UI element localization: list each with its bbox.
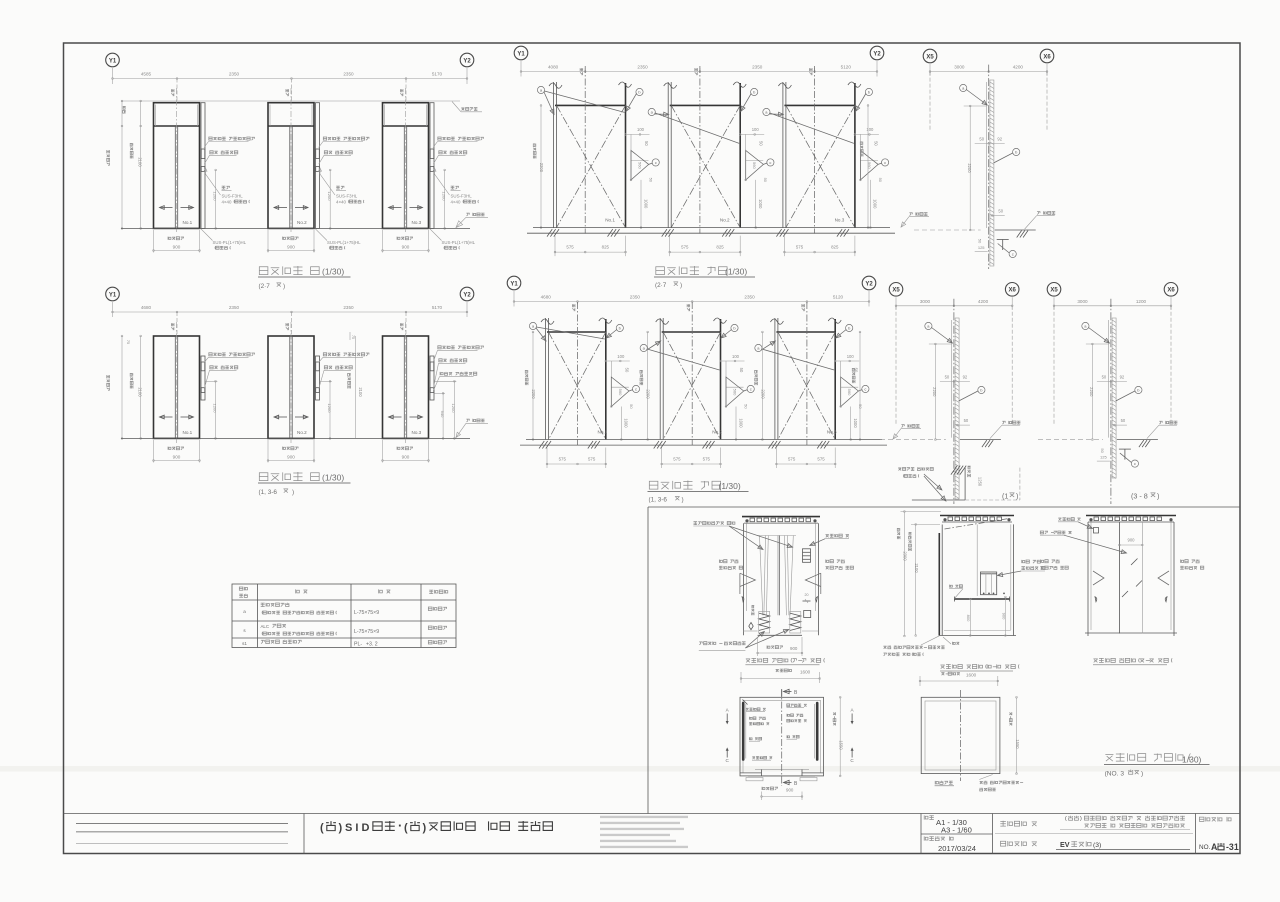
hall door No.2 elevation (1,3-6F) outline [268,336,314,438]
svg-text:2350: 2350 [229,72,240,77]
section 1F leader circle b [978,386,985,393]
cage front door panels (tapered) [760,536,763,616]
door No.1 r2 centerline [176,322,178,444]
hole frame anchor dim stack [855,133,879,135]
svg-text:560: 560 [638,162,643,169]
cage front hook marks [742,597,744,602]
cage plan door opening at bottom [740,772,762,774]
hall door No.1 elevation (1,3-6F) outline [154,336,200,438]
svg-text:No.3: No.3 [412,220,422,225]
svg-text:2200: 2200 [531,389,536,399]
row1 frame No.3 leader circle a [763,108,770,115]
section row1: grid mark X5 [923,49,937,63]
hole frame anchor dim stack [626,133,650,135]
hole frame No.1 rotated head label [580,68,583,75]
hole frame No.3 left angle (double line) [774,318,776,440]
hole frame No.2 left angle (double line) [659,318,661,440]
svg-text:c: c [635,387,637,392]
hall door No.2 elevation (2-7F) outline [268,103,314,229]
cage front springs (toe guards) [759,613,770,630]
svg-text:): ) [1141,771,1143,778]
section 1F left height dim 2200 [934,344,936,440]
row1 holes floor hatches [547,229,552,237]
svg-text:2100: 2100 [358,387,363,397]
svg-text:1000: 1000 [873,199,878,209]
svg-text:575: 575 [681,245,689,250]
hole frame No.3 X-brace diagonals [778,332,835,440]
row2 holes floor hatches [539,441,544,449]
svg-text:900: 900 [173,454,181,459]
svg-text:No.2: No.2 [720,218,730,223]
door No.3 hall button box [430,167,434,172]
svg-text:c: c [769,160,771,165]
row2 holes right floor level note [901,424,919,427]
row1 frame No.1 leader circle a [537,86,544,93]
hole frame No.1 header line [555,104,626,106]
svg-text:c: c [884,160,886,165]
row1 doors right floor note [466,213,484,216]
hole frame No.2 top break hooks [664,83,677,88]
svg-text:Y2: Y2 [865,281,873,287]
svg-text:2200: 2200 [967,163,972,173]
svg-text:900: 900 [790,646,798,651]
svg-text:No.2: No.2 [297,430,307,435]
section 3-8F left height dim 2200 [1091,344,1093,440]
door No.2 button-height dim 1200 [329,170,331,228]
svg-text:2200: 2200 [1089,387,1094,397]
section 1F pit hatch marks [951,466,957,475]
section 1F pit depth label [968,466,971,477]
svg-text:Y2: Y2 [463,292,471,298]
svg-text:1550: 1550 [839,740,844,750]
hole frame No.3 header line [784,104,855,106]
hole frame No.1 rotated head label [572,304,575,311]
grid mark Y2 (row2 doors) [460,287,474,301]
svg-text:50: 50 [964,418,969,423]
hole frame No.3 top break hooks [770,319,783,324]
cage front door header line [757,535,796,537]
row1 doors right top leader note [461,107,477,110]
svg-text:s1: s1 [242,641,247,646]
door No.3 r2 panel split [403,336,405,438]
cage back mirror glass diagonal marks [1131,559,1138,566]
cage back floor line [1085,632,1177,634]
svg-text:1/30): 1/30) [1182,755,1202,765]
door No.1 button-height dim 1200 [215,170,217,228]
hole frame No.1 centerline [577,302,579,446]
row2 holes: grid mark Y1 [507,276,521,290]
svg-text:50: 50 [979,137,984,142]
cage side front wall (dark) [938,533,940,636]
svg-text:50: 50 [873,141,878,146]
section row1 leader circle a [960,84,967,91]
svg-text:(2·7: (2·7 [259,283,271,290]
svg-text:4680: 4680 [141,305,152,310]
svg-text:50: 50 [739,368,744,373]
cage plan top-left corner tick [743,700,748,705]
door No.3 r2 sill dims [382,440,384,463]
svg-text:1550: 1550 [1015,739,1020,749]
cage front title [746,658,825,663]
svg-text:SUS-PL(1+75)HL: SUS-PL(1+75)HL [442,240,476,245]
cage ceiling assembly strip [742,516,820,518]
svg-text:): ) [1016,492,1018,501]
row1 holes left overall dim [540,105,542,227]
svg-text:3000: 3000 [954,65,965,70]
section 1F top dimension line [895,297,897,310]
hole frame anchor triangle symbol [631,150,649,180]
svg-text:560: 560 [867,162,872,169]
svg-text:825: 825 [831,245,839,250]
row1 holes floor line [533,227,890,229]
door No.3 button-height dim 1200 [444,170,446,228]
row2 holes title: hall hole-drilling plan (1/30) [649,481,720,490]
door No.2 hall indicator box [316,149,320,159]
svg-text:+3. 2: +3. 2 [366,641,378,647]
row2 middle-right 2100 dim (door3) [355,336,357,438]
door No.2 rotated head label [286,89,289,96]
svg-text:50: 50 [858,404,863,409]
door No.3 button leader note [439,151,467,154]
svg-text:75: 75 [351,335,355,339]
section 1F leader circle a [925,322,932,329]
svg-text:50: 50 [759,141,764,146]
hole frame No.1 top break hooks [549,83,562,88]
svg-text:2200: 2200 [760,389,765,399]
svg-text:(2·7: (2·7 [655,282,667,289]
section 3-8F floor finish note [1159,421,1177,424]
cage plan right dim 1550 [839,697,841,776]
row1 doors left dimension lines [121,101,123,228]
svg-text:125: 125 [978,245,985,250]
section row1 base anchor T symbol [997,239,1009,241]
svg-text:PL-: PL- [354,641,362,647]
door No.3 indicator leader note [438,137,484,140]
svg-text:Y1: Y1 [109,58,117,64]
door No.2 sill width label 900 [283,237,299,240]
svg-text:1000: 1000 [624,418,629,428]
svg-text:4200: 4200 [978,299,989,304]
door No.3 r2 940 dim [442,393,444,438]
hole frame 1000 vertical dim [869,180,871,228]
svg-text:3000: 3000 [920,299,931,304]
svg-text:575: 575 [796,245,804,250]
svg-text:): ) [292,489,294,496]
door No.2 r2 1200 dim [329,381,331,438]
svg-text:900: 900 [287,244,295,249]
cage plan left wall handrail bar [742,703,745,760]
svg-text:): ) [682,497,684,504]
svg-text:3000: 3000 [1077,299,1088,304]
svg-text:50: 50 [878,178,883,183]
row2 holes: grid mark Y2 [862,276,876,290]
door No.1 r2 arrows [160,416,173,418]
svg-text:50: 50 [744,404,749,409]
section row1 wall centerline [988,65,990,269]
svg-text:(1, 3-6: (1, 3-6 [649,497,668,504]
svg-text:): ) [1157,492,1159,501]
section row1 top dimension line [929,64,931,76]
svg-text:92: 92 [1120,375,1125,380]
cage-section enclosure box [648,507,1240,814]
door No.2 centerline [290,88,292,234]
svg-text:4×40: 4×40 [336,200,346,205]
door No.3 r2 indicator [430,362,434,371]
door No.2 opening arrows [274,207,287,209]
svg-text:): ) [1080,816,1082,822]
section row1 floor line [995,229,1036,231]
svg-text:1200: 1200 [327,192,332,202]
section 3-8F 50/92 dims [1097,381,1127,383]
svg-text:SUS-PL(1+75)HL: SUS-PL(1+75)HL [213,240,247,245]
hole frame 1000 vertical dim [620,407,622,440]
door No.1 sill dimension ticks [153,230,155,253]
title block: project name box [1000,821,1037,826]
svg-text:SUS-PL(1+75)HL: SUS-PL(1+75)HL [327,240,361,245]
cage side rear wall [1013,524,1015,635]
section 1F floor finish note [1002,421,1020,424]
row2 doors floor line [121,437,470,439]
section 1F pit floor line [912,499,965,501]
door No.1 r2 indicator note [209,353,255,356]
svg-text:1600: 1600 [966,673,977,678]
svg-text:4585: 4585 [141,72,152,77]
hole frame No.2 right post [720,319,722,440]
cage ceiling assembly strip [940,515,1014,517]
cage back camera note [1058,517,1080,520]
svg-text:X6: X6 [1009,288,1017,294]
svg-text:SUS-F3HL: SUS-F3HL [336,194,358,199]
svg-text:-31: -31 [1226,842,1239,852]
svg-text:20: 20 [805,593,809,597]
cage back mirror joint lines [1118,522,1120,634]
door No.3 r2 button [430,388,434,393]
hall door No.3 elevation (2-7F) outline [383,103,429,229]
door No.2 sill note SUS-PL [315,228,327,240]
svg-text:No.3: No.3 [827,430,837,435]
svg-text:800: 800 [966,615,971,622]
door No.1 r2 sill dims [153,440,155,463]
svg-text:A3 - 1/60: A3 - 1/60 [941,826,972,835]
door No.1 rotated head label [171,89,174,96]
cage plan B section marker top [781,690,783,698]
svg-text:No.1: No.1 [183,220,193,225]
door No.1 button leader note [210,151,238,154]
hole frame No.2 header line [670,104,741,106]
door No.3 side frame strip [430,103,434,229]
section 3-8F base anchor T symbol [1119,448,1131,450]
svg-text:2350: 2350 [630,295,641,300]
cage ceiling assembly strip [1086,515,1176,517]
svg-text:50: 50 [945,375,950,380]
hole frame No.1 left angle (double line) [553,82,555,228]
svg-text:X5: X5 [892,288,900,294]
door No.2 r2 indicator [316,362,320,371]
svg-text:No.1: No.1 [598,430,608,435]
row1 frame No.2 leader circle a [648,108,655,115]
door No.2 indicator leader note [323,137,369,140]
door No.1 r2 button note [210,366,238,369]
svg-text:1200: 1200 [1136,299,1147,304]
svg-text:): ) [680,282,682,289]
svg-text:125: 125 [1100,455,1107,460]
section 1F floor line [960,439,1001,441]
svg-text:1250: 1250 [977,477,982,487]
svg-text:Y1: Y1 [517,51,525,57]
row2 doors top dimension line [112,302,114,317]
svg-text:(3): (3) [1093,842,1101,849]
section 1F waterproofing note [898,467,933,470]
hole frame No.3 centerline [806,302,808,446]
svg-text:No.3: No.3 [412,430,422,435]
svg-text:c: c [655,160,657,165]
svg-text:No.1: No.1 [183,430,193,435]
section row1 floor hatch [1017,231,1022,238]
door No.3 sill dimension ticks [382,230,384,253]
door No.1 r2 head label [171,323,174,330]
svg-text:560: 560 [752,162,757,169]
door No.1 hall indicator box [201,149,205,159]
hole frame No.1 right post [605,319,607,440]
hole frame No.2 rotated head label [695,68,698,75]
section 3-8F leader circle c at base [1131,460,1138,467]
cage side button label [950,585,963,588]
svg-text:940: 940 [440,411,445,418]
svg-text:): ) [423,822,427,834]
door No.3 r2 arrows [389,416,402,418]
ceiling plan right dim 1550 [1016,697,1018,773]
cage side interior center guide [976,525,978,597]
svg-text:2100: 2100 [138,157,143,167]
hole frame anchor triangle symbol [746,150,764,180]
cage plan inner wall lines [742,700,744,773]
section 1F wall hatched strip [955,318,959,499]
section 3-8F leader circle b [1135,386,1142,393]
cage back side walls [1087,522,1089,636]
door No.2 r2 frame strip (indicator panel) [316,356,320,400]
cage back title [1093,658,1172,663]
hole frame No.2 header line [662,331,721,333]
svg-text:825: 825 [602,245,610,250]
svg-text:(1/30): (1/30) [322,267,344,277]
hole frame No.3 left angle (double line) [782,82,784,228]
cage design big title [1105,753,1190,761]
ceiling plan outline [921,697,1000,773]
hole frame anchor triangle symbol [860,150,878,180]
row2 frame No.3 leader circle a [755,344,762,351]
cage side operating panel box [981,572,997,595]
hole frame No.1 centerline [584,66,586,234]
door No.1 sill note SUS-PL [201,228,213,240]
cage side bottom-left sensor note [883,645,944,648]
hole frame No.1 X-brace diagonals [549,332,606,440]
hole frame anchor dim stack [721,360,745,362]
door No.3 rotated head label [400,89,403,96]
hole frame No.2 top break hooks [656,319,669,324]
title block: signature box [303,814,305,854]
cage side panel base dots [983,593,985,595]
section row1 leader circle b [1013,148,1020,155]
section 1F 50/92 dims [940,381,970,383]
hole frame No.3 right post [854,83,856,228]
section row1 grid guide lines [929,72,931,132]
door No.1 hall button box [201,167,205,172]
hole frame No.3 top break hooks [778,83,791,88]
svg-text:75: 75 [126,340,130,344]
door No.3 sill note SUS-PL [430,228,442,240]
cage side left height dims 2300/2100 [903,512,905,637]
title block: drawing number box [1195,814,1197,854]
section 3-8F top dimension line [1053,297,1055,310]
svg-text:575: 575 [788,457,796,462]
door No.1 panel split lines [174,126,176,228]
svg-text:575: 575 [673,457,681,462]
svg-text:X6: X6 [1043,54,1051,60]
svg-text:900: 900 [1128,538,1136,543]
hole frame No.2 centerline [691,302,693,446]
cage plan centerline vertical [781,689,783,786]
svg-text:50: 50 [624,368,629,373]
hole frame anchor triangle symbol [611,377,629,407]
cage side floor label [953,642,960,645]
svg-text:575: 575 [817,457,825,462]
door No.3 r2 centerline [405,322,407,444]
section 3-8F floor line [1117,439,1158,441]
door No.1 jamb finish note SUS-F3HL [222,186,230,189]
svg-text:1200: 1200 [213,192,218,202]
cage side interior 800/900 dims [969,599,971,636]
door No.2 r2 button note [324,366,352,369]
hole frame No.2 X-brace diagonals [671,105,740,227]
hole frame anchor dim stack [740,133,764,135]
door No.2 r2 centerline [290,322,292,444]
svg-text:SUS-F3HL: SUS-F3HL [451,194,473,199]
cage plan sill tracks [748,775,815,777]
svg-text:(3 - 8: (3 - 8 [1131,492,1148,501]
hole frame No.3 rotated head label [809,68,812,75]
cage side title [940,664,1019,669]
row1 holes right floor level note [909,212,927,215]
svg-text:·: · [398,818,402,833]
section 1F floor hatch [982,440,987,447]
hole frame No.2 centerline [699,66,701,234]
row2 holes bottom dimension lines [546,448,548,469]
hole frame No.1 X-brace diagonals [557,105,626,227]
svg-text:2100: 2100 [138,387,143,397]
hole frame No.2 X-brace diagonals [663,332,720,440]
section 3-8F floor hatch [1139,440,1144,447]
row1 frame No.3 leader circle b [865,88,872,95]
svg-text:Y1: Y1 [510,281,518,287]
svg-text:50: 50 [644,141,649,146]
cage front bottom dim 1600 [776,669,792,672]
door No.2 side frame strip [316,103,320,229]
svg-text:100: 100 [847,354,855,359]
svg-text:2200: 2200 [646,389,651,399]
row1 doors header reference line [121,100,460,102]
door No.3 sill width label 900 [397,237,413,240]
svg-text:Y1: Y1 [109,292,117,298]
cage front floor line [758,634,802,636]
svg-text:4200: 4200 [1013,65,1024,70]
door No.1 r2 indicator [201,362,205,371]
cage plan bottom width dim 900 [762,787,778,790]
grid mark Y1 (row2 doors) [106,287,120,301]
cage back left note + triangle leader [1041,559,1060,562]
hall door No.3 elevation (1,3-6F) outline [383,336,429,438]
svg-text:EV: EV [1060,840,1070,849]
row1 holes title: hall hole-drilling plan (1/30) [656,266,727,275]
